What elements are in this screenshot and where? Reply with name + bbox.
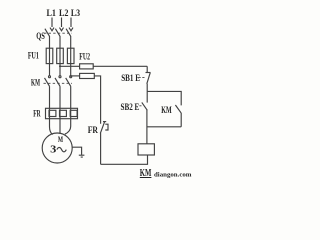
contactor KM main blade pole 3	[70, 76, 72, 78]
thermal contact FR hook	[105, 124, 108, 130]
svg-text:M: M	[58, 134, 63, 144]
motor tilde	[57, 147, 66, 151]
switch QS blade pole 2	[55, 29, 60, 37]
svg-text:L3: L3	[71, 8, 81, 18]
button SB2 blade	[142, 102, 148, 110]
wire motor lead left	[50, 119, 53, 135]
junction dot L3 tap	[70, 75, 72, 77]
svg-text:FR: FR	[33, 109, 41, 119]
wire SB2 lower to coil	[146, 110, 148, 144]
wire FR contact lower	[100, 133, 102, 164]
wire coil bottom	[101, 155, 148, 164]
arrowhead L1	[50, 28, 54, 31]
wire motor to ground	[72, 147, 82, 155]
arrowhead L3	[69, 28, 73, 31]
wire L3 supply stub	[70, 18, 72, 28]
svg-text:SB2 E: SB2 E	[121, 102, 140, 112]
thermal relay FR heater pole 3	[70, 110, 77, 116]
wire FU2b to FR contact rail	[94, 76, 100, 124]
svg-text:diangon.com: diangon.com	[154, 171, 192, 178]
svg-text:KM: KM	[161, 105, 172, 115]
svg-text:KM: KM	[31, 77, 40, 87]
ground symbol	[79, 155, 85, 157]
wire L2 supply stub	[61, 18, 63, 28]
motor M circle	[42, 133, 72, 163]
coil KM rect	[138, 144, 154, 155]
button SB1 actuator dash	[139, 77, 146, 79]
contactor KM main blade pole 2	[59, 76, 61, 78]
thermal relay FR box	[46, 108, 78, 118]
button SB1 blade diagonal	[147, 73, 150, 84]
wire SB1 lower	[146, 84, 148, 92]
button SB2 actuator dash	[139, 105, 143, 107]
svg-text:FU2: FU2	[79, 51, 90, 61]
wire motor lead middle	[59, 119, 61, 134]
fuse FU1 pole 3	[67, 48, 74, 63]
wire pole 3 QS to KM	[70, 36, 72, 76]
wire pole 2 KM to FR	[59, 86, 61, 119]
arrowhead L2	[60, 28, 64, 31]
svg-text:FR: FR	[88, 125, 99, 135]
thermal relay FR heater pole 2	[60, 110, 67, 116]
svg-text:L1: L1	[47, 8, 57, 18]
wire tap L2 to FU2a	[60, 65, 80, 67]
wire SB1 upper	[146, 66, 148, 72]
wire pole 1 KM to FR	[49, 86, 51, 119]
wire pole 1 QS to KM	[49, 36, 51, 76]
svg-text:KM: KM	[140, 168, 152, 179]
wire KM aux lower	[180, 113, 182, 127]
thermal contact FR blade	[103, 121, 106, 123]
fuse FU1 pole 2	[57, 48, 64, 63]
button SB1 blade	[146, 72, 151, 74]
wire tap L3 to FU2b	[71, 75, 80, 77]
junction dot L2 tap	[59, 65, 61, 67]
fuse FU2 lower	[80, 73, 95, 78]
contact KM aux blade	[175, 105, 181, 113]
thermal relay FR heater pole 1	[49, 110, 56, 116]
fuse FU2 upper	[80, 64, 94, 69]
thermal contact FR blade diagonal	[100, 122, 104, 134]
svg-text:QS: QS	[36, 31, 45, 41]
wire aux branch bottom	[147, 126, 181, 128]
switch QS blade pole 3	[66, 29, 71, 37]
wire aux branch top	[147, 91, 181, 105]
wire pole 2 QS to KM	[59, 36, 61, 76]
switch QS dashed linkage	[44, 32, 72, 34]
fuse FU1 pole 1	[46, 48, 53, 63]
svg-text:FU1: FU1	[28, 50, 39, 60]
wire pole 3 KM to FR	[70, 86, 72, 119]
svg-text:SB1 E: SB1 E	[121, 73, 140, 83]
svg-text:L2: L2	[59, 8, 69, 18]
contactor KM dashed linkage	[44, 82, 73, 84]
svg-text:3: 3	[50, 144, 56, 155]
contactor KM main blade pole 1	[49, 76, 51, 78]
wire L1 supply stub	[51, 18, 53, 28]
wire SB2 upper	[146, 91, 148, 102]
switch QS blade pole 1	[45, 29, 50, 37]
wire motor lead right	[65, 119, 71, 135]
wire FU2a to SB1	[93, 65, 147, 67]
